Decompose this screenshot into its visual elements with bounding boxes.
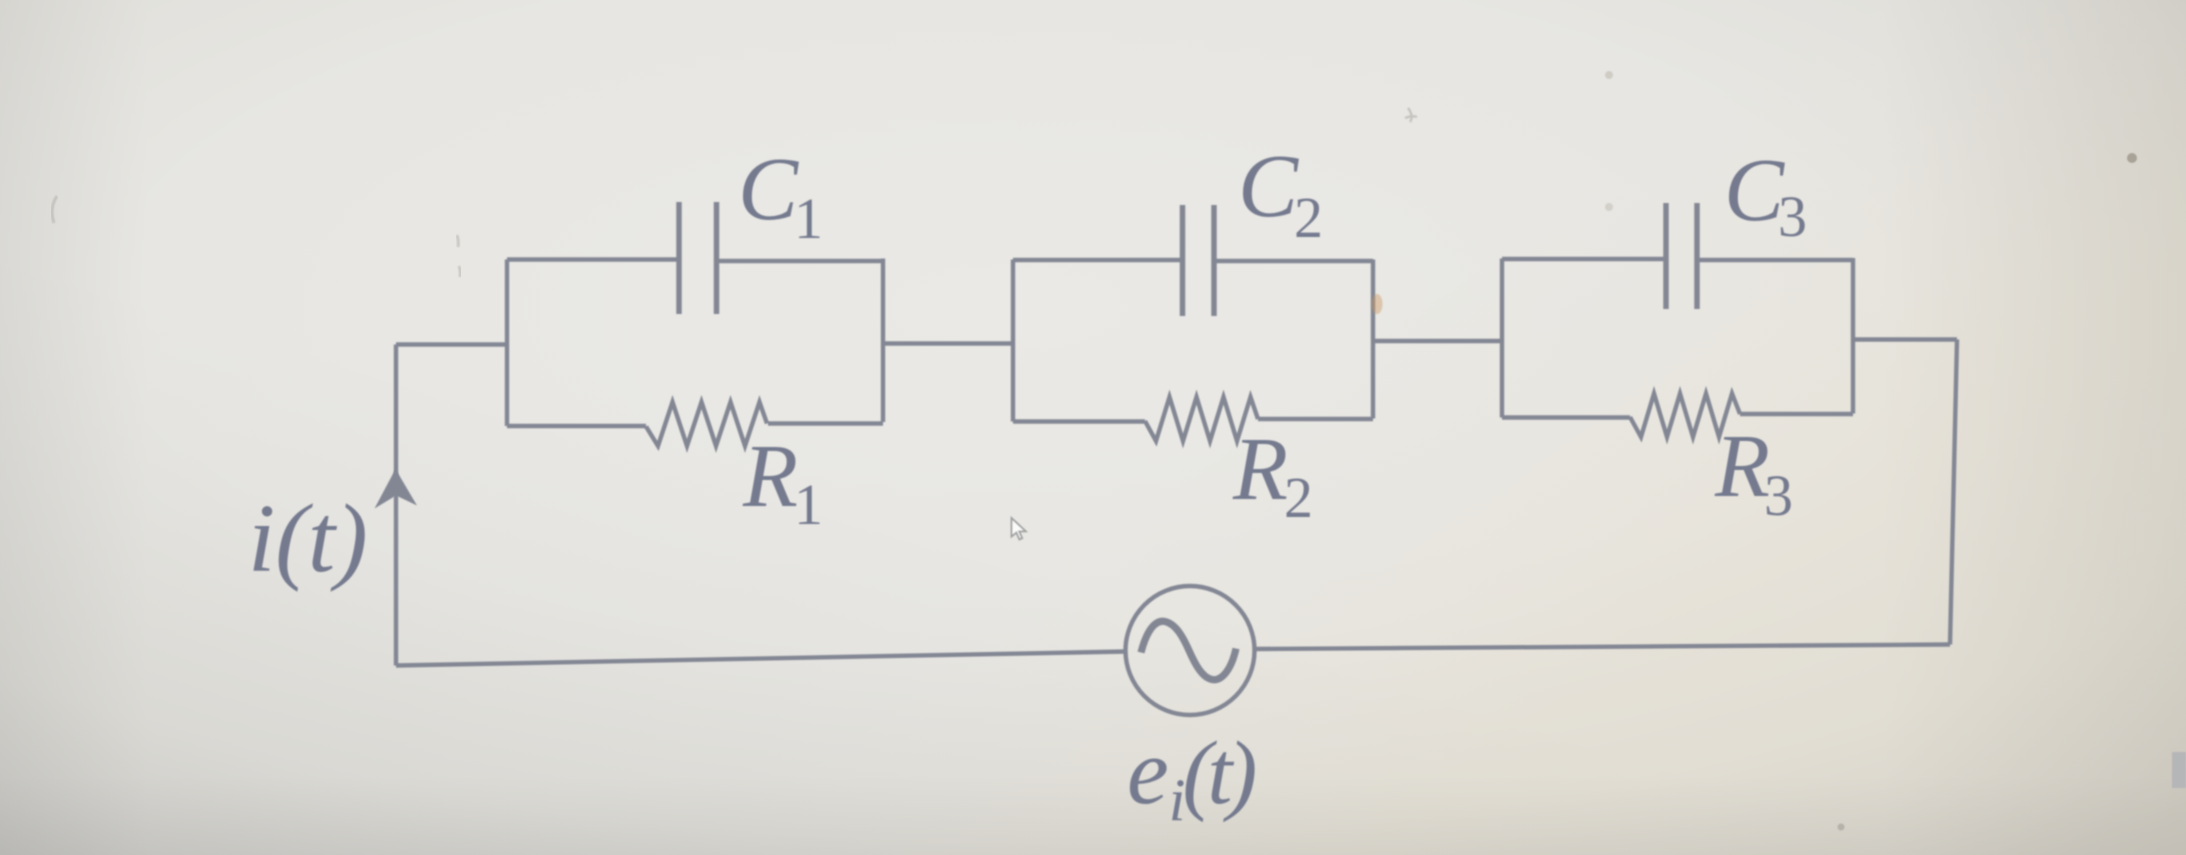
svg-text:i(t): i(t)	[248, 485, 368, 593]
photo artifact: dark speck top right	[2127, 153, 2137, 163]
voltage source sine symbol	[1141, 621, 1236, 679]
svg-text:ei(t): ei(t)	[1127, 720, 1255, 833]
wire: mid bus segment between block 1 and block 2	[883, 341, 1013, 345]
capacitor C2	[1183, 205, 1215, 316]
wire: block 1 right edge	[881, 259, 885, 423]
wire: bottom wire right of source	[1254, 645, 1950, 650]
resistor R3	[1630, 394, 1740, 438]
wire: block 1 top rail	[507, 260, 883, 262]
wire: mid bus left segment (left wire to block 1)	[396, 342, 507, 346]
wire: block 3 left edge	[1500, 259, 1504, 418]
wire: mid bus right segment (block 3 to right wire)	[1853, 337, 1957, 341]
wire: block 3 top rail	[1502, 259, 1853, 260]
wire: block 1 left edge	[505, 260, 509, 427]
label C3	[1724, 141, 1807, 249]
label C2	[1238, 137, 1323, 250]
wire: block 2 bottom rail	[1013, 419, 1373, 422]
wire: block 2 top rail	[1013, 260, 1373, 261]
label C1	[738, 140, 823, 251]
label R3	[1714, 417, 1793, 528]
photo artifact: faint curved scuff top left	[52, 196, 57, 223]
wire: block 3 right edge	[1851, 258, 1855, 414]
wire: mid bus segment between block 2 and block 3	[1373, 339, 1502, 343]
current arrow i(t) head	[375, 469, 418, 509]
label e_i(t)	[1127, 720, 1255, 833]
label R2	[1232, 420, 1313, 530]
wire: bottom wire left of source	[396, 652, 1126, 666]
resistor R2	[1145, 397, 1258, 441]
capacitor C3	[1666, 203, 1697, 309]
wire: block 2 left edge	[1011, 260, 1015, 422]
wire: right vertical wire	[1950, 340, 1957, 645]
voltage source e_i(t) circle	[1126, 586, 1255, 715]
wire: left vertical wire	[394, 345, 398, 666]
photo artifact: dark speck bottom right	[1838, 824, 1845, 831]
photo artifact: gray patch on right edge	[2172, 752, 2186, 788]
wire: block 3 bottom rail	[1502, 414, 1853, 418]
photo artifact: orange smudge near block 2 right edge	[1372, 294, 1383, 314]
wire: block 1 bottom rail	[507, 424, 883, 427]
mouse cursor	[1012, 518, 1026, 540]
resistor R1	[646, 402, 767, 446]
capacitor C1	[679, 202, 717, 314]
photo artifact: faint scratch top middle	[1405, 108, 1417, 122]
label R1	[742, 427, 823, 537]
wire: block 2 right edge	[1371, 260, 1375, 419]
photo artifact: faint speck top middle	[1605, 71, 1613, 79]
photo artifact: faint streaks left of block 1	[457, 235, 460, 277]
label i(t)	[248, 485, 368, 593]
photo artifact: faint speck	[1605, 203, 1613, 211]
